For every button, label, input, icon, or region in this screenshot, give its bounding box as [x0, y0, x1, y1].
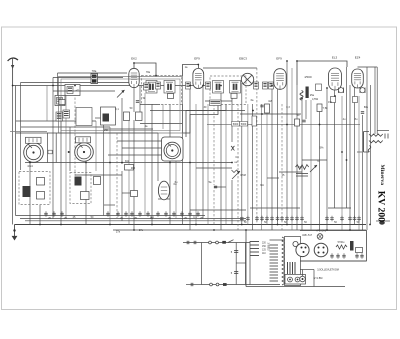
wire	[319, 111, 321, 230]
trimmer	[48, 150, 52, 154]
capacitor	[106, 211, 110, 217]
resistor box	[59, 100, 65, 105]
capacitor	[172, 211, 176, 217]
capacitor	[353, 216, 357, 222]
cap	[306, 87, 309, 99]
wire	[354, 85, 356, 225]
wire	[296, 85, 298, 230]
cap	[263, 82, 268, 89]
junction	[195, 224, 197, 226]
power transformer winding	[270, 245, 279, 281]
wire	[231, 86, 233, 143]
wire	[301, 99, 303, 231]
capacitor	[124, 211, 128, 217]
capacitor	[214, 186, 217, 188]
wire	[75, 174, 122, 176]
mains bottom wire	[201, 284, 250, 286]
tube socket	[296, 243, 309, 256]
trimmer box	[231, 93, 237, 98]
wire	[305, 100, 307, 119]
wire	[47, 133, 49, 163]
coil box L1	[55, 96, 65, 106]
wire	[121, 98, 123, 164]
wire	[328, 207, 351, 209]
wire	[362, 115, 364, 230]
wire	[108, 132, 158, 134]
junction	[151, 224, 153, 226]
junction	[231, 162, 233, 164]
divider vertical	[235, 243, 237, 285]
wire	[225, 104, 227, 225]
capacitor	[164, 211, 168, 217]
coil Z2+3 box	[65, 85, 80, 96]
mains input wire	[186, 284, 201, 286]
coil	[300, 91, 303, 101]
svg-text:78a: 78a	[92, 69, 97, 73]
wire	[15, 86, 17, 216]
junction	[241, 224, 243, 226]
junction	[133, 62, 135, 64]
switch contact	[209, 241, 212, 244]
transformer left wire	[245, 243, 247, 285]
wire	[25, 162, 232, 164]
wire	[13, 85, 206, 87]
junction	[109, 224, 111, 226]
wire	[277, 89, 279, 225]
wire	[183, 104, 218, 133]
ground	[12, 225, 18, 241]
resistor	[37, 192, 45, 200]
bandfilter box	[101, 107, 116, 125]
wire	[300, 260, 366, 262]
capacitor	[44, 211, 48, 217]
fuse element	[223, 283, 227, 286]
wire	[12, 86, 14, 225]
svg-text:25b: 25b	[104, 129, 109, 132]
junction	[326, 229, 328, 231]
IF transformer 2 can	[210, 76, 246, 105]
junction	[197, 64, 199, 66]
junction	[326, 87, 328, 89]
wire	[251, 104, 253, 230]
svg-text:EF9: EF9	[194, 57, 200, 61]
wire	[346, 67, 348, 208]
wave trap Tr	[91, 74, 98, 84]
capacitor	[330, 216, 334, 222]
capacitor	[336, 253, 340, 259]
wire	[186, 104, 226, 137]
wire	[247, 104, 249, 225]
capacitor	[196, 211, 200, 217]
wire	[326, 88, 328, 230]
wire	[302, 159, 327, 161]
coil L2	[56, 112, 63, 121]
wire	[25, 220, 246, 222]
cathode resistor	[331, 97, 336, 103]
wire	[202, 86, 204, 219]
wire	[128, 120, 130, 225]
mains capacitor	[187, 241, 189, 244]
grid resistor	[316, 84, 322, 91]
oscillator coil box 2	[70, 173, 91, 204]
wire	[260, 104, 262, 230]
wire	[271, 86, 273, 231]
junction	[39, 224, 41, 226]
wire	[104, 204, 115, 206]
wire	[182, 104, 184, 225]
wire	[240, 113, 301, 115]
junction	[271, 85, 273, 87]
capacitor	[330, 253, 334, 259]
junction	[52, 85, 54, 87]
wire	[256, 68, 258, 225]
tube socket	[314, 243, 328, 257]
capacitor	[342, 253, 346, 259]
wire	[205, 100, 232, 102]
junction	[109, 162, 111, 164]
svg-text:+FE CA6: +FE CA6	[316, 230, 327, 233]
resistor	[252, 116, 257, 126]
wire	[245, 231, 247, 287]
cap	[254, 82, 259, 89]
IF transformer 1 can	[142, 76, 182, 105]
wire	[95, 121, 97, 171]
padder cap	[23, 186, 31, 197]
tube V1 EK2	[129, 68, 139, 87]
tube V6 EZ4	[352, 69, 364, 88]
wire	[313, 270, 315, 287]
wire	[55, 133, 57, 163]
svg-text:7,5k: 7,5k	[323, 106, 329, 110]
capacitor	[338, 88, 343, 94]
junction	[334, 95, 336, 97]
junction	[349, 229, 351, 231]
junction	[319, 124, 321, 126]
capacitor	[188, 211, 192, 217]
capacitor	[270, 216, 274, 222]
svg-text:EL3: EL3	[332, 56, 338, 60]
capacitor	[276, 216, 280, 222]
wire	[109, 127, 111, 225]
divider capacitor	[234, 272, 238, 274]
capacitor	[138, 211, 142, 217]
svg-text:78a: 78a	[146, 71, 151, 74]
component	[87, 115, 92, 123]
svg-text:1M: 1M	[268, 100, 271, 103]
shield box inner	[61, 79, 180, 131]
capacitor	[340, 216, 344, 222]
wire	[122, 147, 162, 149]
junction	[369, 224, 371, 226]
tube V7	[158, 181, 169, 200]
wire	[60, 104, 62, 225]
wire	[116, 133, 118, 219]
junction	[245, 229, 247, 231]
resistor 7.5k	[317, 104, 322, 112]
wire	[366, 67, 368, 230]
wire	[104, 128, 153, 130]
tuning capacitor C3	[162, 137, 184, 161]
svg-text:EF9: EF9	[276, 57, 282, 61]
wire	[291, 68, 293, 230]
wire	[196, 167, 232, 169]
wire	[207, 124, 360, 126]
resistor	[81, 192, 90, 200]
component AB9	[356, 248, 363, 253]
trimmer arrow	[117, 90, 125, 98]
coil L1	[57, 98, 63, 105]
capacitor	[348, 216, 352, 222]
cap	[186, 82, 191, 89]
switch arm	[228, 240, 234, 243]
wire	[377, 130, 389, 132]
svg-text:302: 302	[125, 160, 130, 163]
wire	[279, 171, 302, 173]
wire	[286, 61, 288, 225]
wire	[302, 270, 304, 277]
wire	[121, 171, 123, 221]
svg-text:Minerva: Minerva	[379, 165, 385, 186]
wire	[117, 140, 162, 142]
wire	[39, 205, 41, 225]
wire	[175, 160, 177, 219]
wire	[213, 104, 215, 185]
selector contact	[288, 277, 293, 282]
cap	[156, 82, 161, 89]
wire	[266, 109, 268, 225]
capacitor	[280, 216, 284, 222]
junction	[301, 98, 303, 100]
svg-text:KV 200: KV 200	[375, 191, 386, 222]
resistor 0.1	[124, 112, 130, 121]
wire	[189, 86, 191, 231]
junction blob	[379, 221, 385, 225]
IF coil cell	[146, 81, 157, 94]
wire	[310, 100, 312, 230]
resistor 5700	[336, 245, 347, 249]
wire	[169, 104, 171, 137]
mains input wire	[183, 242, 201, 244]
wire	[241, 83, 243, 225]
svg-text:EZ4: EZ4	[355, 56, 361, 60]
junction	[85, 162, 87, 164]
switch contact	[216, 241, 219, 244]
capacitor	[290, 216, 294, 222]
svg-text:0,1: 0,1	[193, 216, 197, 219]
capacitor	[295, 216, 299, 222]
cap	[206, 82, 211, 89]
wire	[374, 67, 376, 134]
wire	[53, 90, 115, 92]
AF coupling coil	[210, 100, 222, 106]
svg-text:5000: 5000	[241, 123, 247, 126]
wire	[207, 104, 209, 225]
wire	[85, 160, 87, 225]
wire	[267, 177, 279, 179]
svg-text:EBC3: EBC3	[239, 57, 247, 61]
wire	[213, 190, 215, 225]
label box 5000	[240, 122, 248, 127]
svg-text:302: 302	[131, 166, 136, 170]
junction	[74, 85, 76, 87]
IF trimmer cell	[164, 81, 175, 94]
wire	[341, 96, 343, 230]
svg-text:5%: 5%	[319, 146, 324, 150]
switch contact	[216, 283, 219, 286]
capacitor	[355, 253, 359, 259]
shield box	[59, 77, 183, 134]
wire	[190, 209, 246, 211]
wire	[169, 160, 171, 225]
tuning capacitor C2	[75, 137, 94, 162]
coil Z2	[67, 87, 73, 94]
tube V3 EBC3	[241, 73, 253, 85]
wire	[20, 218, 246, 220]
wire	[65, 95, 67, 219]
wire	[162, 104, 164, 129]
svg-text:EK2: EK2	[131, 57, 137, 61]
wire	[281, 104, 283, 230]
wire	[370, 85, 372, 225]
capacitor	[60, 211, 64, 217]
capacitor	[361, 112, 364, 114]
junction	[286, 124, 288, 126]
divider link wire	[236, 262, 245, 264]
voltage selector	[285, 237, 301, 286]
resistor 302	[125, 165, 134, 171]
svg-text:0,1: 0,1	[115, 108, 119, 111]
pilot lamp	[317, 234, 323, 240]
wire	[10, 131, 47, 133]
svg-text:100: 100	[298, 166, 303, 169]
resistor	[94, 177, 101, 185]
component	[295, 119, 300, 126]
wire	[220, 86, 222, 231]
tube V2 EF9	[193, 69, 204, 89]
wire	[334, 88, 336, 96]
wire	[16, 120, 96, 122]
capacitor	[180, 211, 184, 217]
antenna	[8, 58, 18, 86]
wire	[122, 192, 134, 194]
wire	[21, 82, 136, 84]
capacitor	[116, 211, 120, 217]
wire	[74, 86, 76, 178]
junction	[202, 85, 204, 87]
wire	[195, 104, 197, 225]
svg-text:27a: 27a	[139, 229, 144, 232]
tube V5 EL3	[329, 68, 342, 90]
IF trimmer cell	[230, 81, 241, 94]
junction	[261, 113, 263, 115]
junction	[68, 151, 70, 153]
loudspeaker	[364, 132, 389, 153]
wire	[151, 104, 153, 225]
coil L3	[63, 110, 70, 118]
output transformer	[296, 165, 309, 176]
junction	[189, 85, 191, 87]
power section box	[300, 231, 367, 262]
wire	[58, 72, 128, 74]
wire	[108, 154, 161, 156]
coil	[75, 177, 82, 186]
coupling coil	[144, 83, 150, 90]
tuning capacitor C1	[24, 137, 44, 162]
capacitor	[325, 216, 329, 222]
svg-text:5700u: 5700u	[338, 241, 345, 244]
wire	[69, 127, 71, 171]
wire	[203, 67, 257, 69]
wire	[231, 180, 233, 225]
wire	[334, 96, 336, 208]
capacitor	[240, 216, 244, 222]
mains left vertical	[201, 243, 203, 285]
junction	[341, 151, 343, 153]
wire	[20, 83, 22, 171]
label box 5000	[232, 122, 240, 127]
junction	[220, 85, 222, 87]
svg-text:4/14: 4/14	[27, 164, 33, 168]
wire	[46, 86, 48, 122]
junction	[12, 85, 14, 87]
divider capacitor	[234, 251, 238, 253]
mains capacitor	[191, 283, 193, 286]
svg-text:4/5000: 4/5000	[304, 76, 312, 79]
wire	[300, 269, 314, 271]
capacitor	[260, 105, 263, 107]
junction	[133, 229, 135, 231]
switch contact	[210, 283, 213, 286]
mains capacitor	[194, 241, 196, 244]
cap	[269, 82, 274, 89]
capacitor	[156, 211, 160, 217]
svg-text:5000: 5000	[233, 123, 239, 126]
trimmer box	[168, 94, 174, 99]
svg-text:80u: 80u	[364, 106, 369, 109]
junction	[60, 224, 62, 226]
wire	[95, 117, 108, 119]
capacitor	[246, 216, 250, 222]
wire	[376, 220, 390, 222]
resistor	[136, 112, 143, 121]
svg-text:3 9853: 3 9853	[267, 243, 271, 251]
junction	[29, 162, 31, 164]
wire	[15, 224, 367, 226]
connector	[300, 276, 306, 282]
wire	[29, 160, 31, 225]
wire	[237, 104, 239, 230]
capacitor	[357, 216, 361, 222]
capacitor	[285, 216, 289, 222]
wire	[250, 207, 300, 209]
wire	[57, 73, 59, 98]
junction	[286, 60, 288, 62]
wire	[103, 125, 105, 216]
wire	[183, 65, 199, 77]
mains top wire	[201, 242, 250, 244]
transformer top wire	[270, 239, 287, 241]
junction	[296, 60, 298, 62]
selector contact	[293, 241, 298, 246]
fuse element	[222, 241, 226, 244]
transformer frame	[250, 241, 280, 285]
svg-text:1W: 1W	[328, 101, 332, 104]
selector bars	[288, 262, 296, 274]
resistor 102	[265, 104, 270, 113]
svg-text:EY1.BM: EY1.BM	[314, 277, 323, 280]
wire	[52, 78, 54, 219]
tube V4 EF9	[274, 69, 286, 90]
